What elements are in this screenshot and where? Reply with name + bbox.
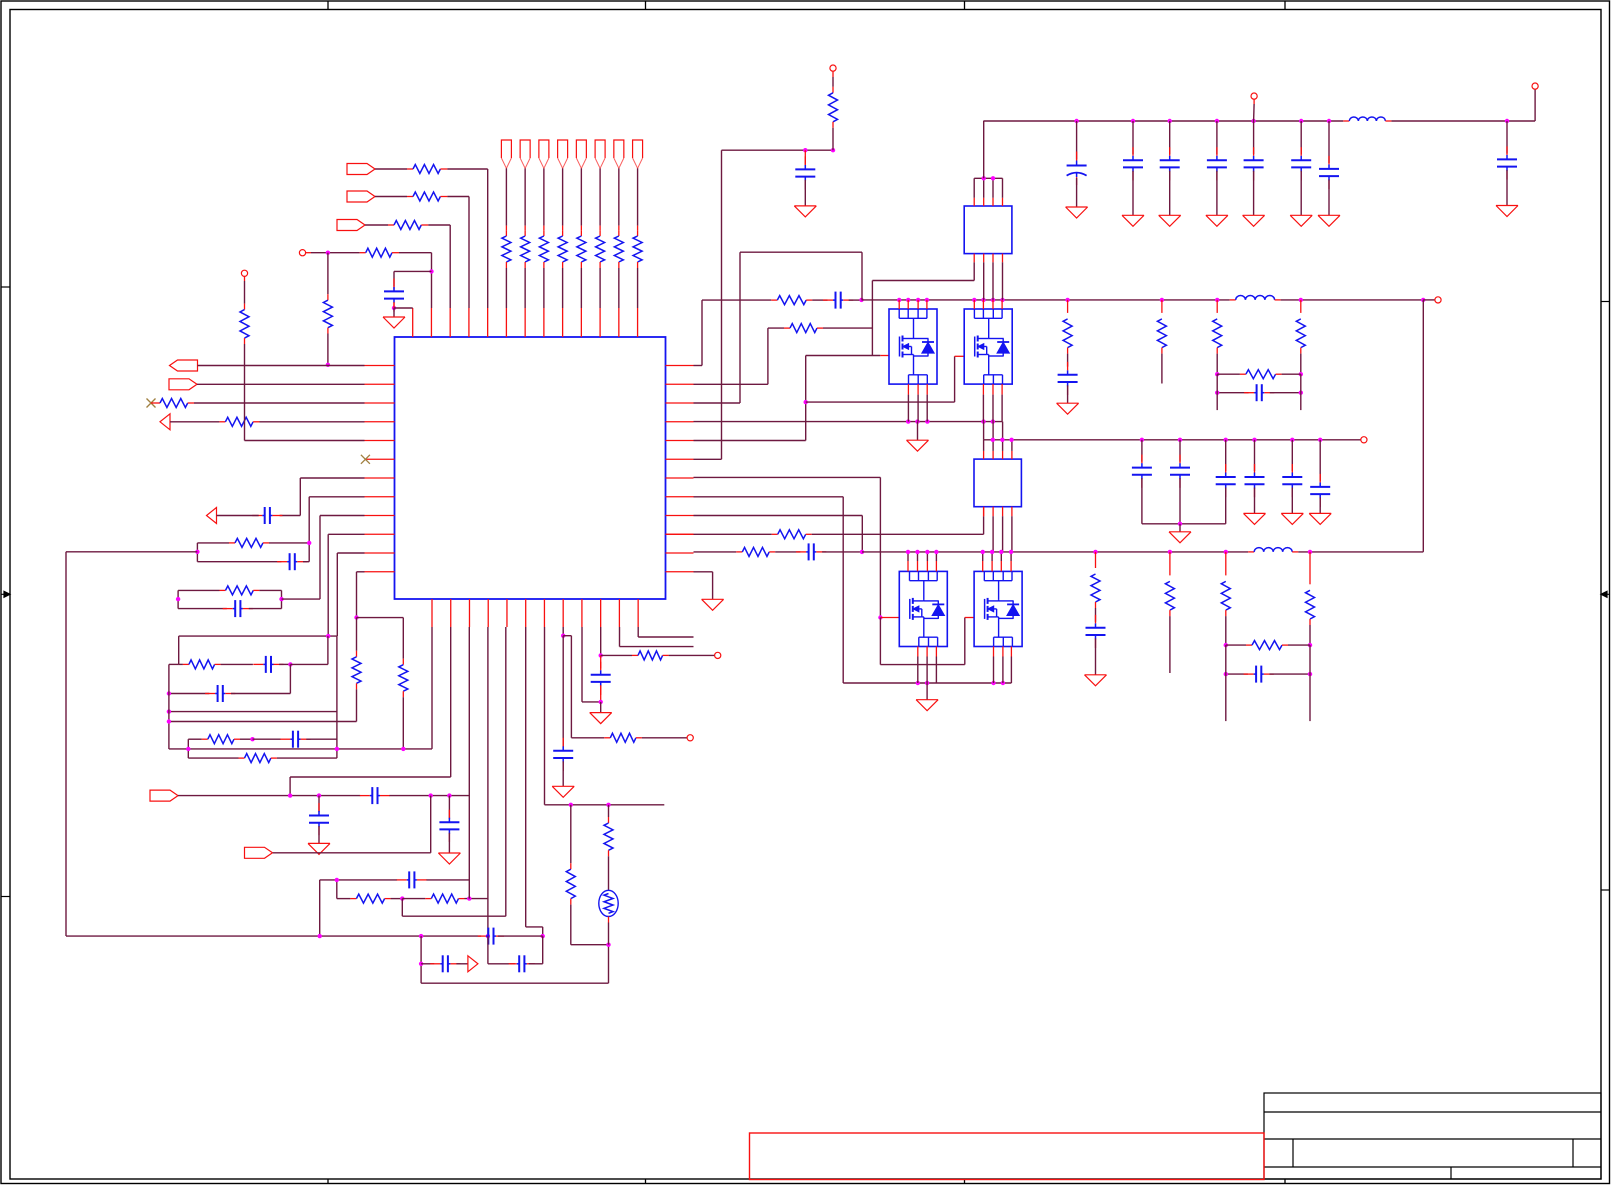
power flag PF6 bbox=[595, 140, 605, 168]
ground G-top bbox=[383, 308, 405, 328]
resistor RG2 to terminal T7 bbox=[601, 651, 721, 660]
wire resistor RT2 to IC bbox=[524, 268, 526, 308]
capacitor CF3 column x=1225.7 bbox=[1216, 440, 1236, 524]
capacitor CF1 column x=1141.9 bbox=[1132, 440, 1152, 524]
port triangle PR1 bbox=[468, 956, 478, 972]
inductor L1 on bus1 bbox=[1343, 117, 1391, 121]
wire resistor RT4 to IC bbox=[562, 268, 564, 308]
IC U1 bottom pin stubs bbox=[432, 599, 638, 627]
wire gate2 feed bbox=[806, 356, 965, 402]
wire to resistor RG1 and terminal bbox=[563, 636, 610, 738]
wire flag 8 to resistor bbox=[637, 168, 639, 230]
wire PB to IC bbox=[197, 383, 365, 385]
wire shared cap bottom y=523.8 bbox=[1142, 522, 1226, 526]
wire row11R bus3 origin with RB4 CB6 bbox=[694, 551, 743, 553]
mosfet Q3 bottom pin wires bbox=[918, 647, 937, 684]
capacitor CA2 bbox=[1123, 121, 1143, 215]
wire cap branch y=879.9 bbox=[320, 871, 470, 936]
power flag PF5 bbox=[576, 140, 586, 168]
ground GA1 bbox=[1066, 207, 1088, 218]
capacitor CA3 bbox=[1160, 121, 1180, 215]
capacitor CA7 bbox=[1319, 121, 1339, 215]
junction row4 bbox=[326, 251, 330, 255]
wire pin10 jog bbox=[582, 627, 601, 702]
RC loop5 stubs bbox=[1226, 645, 1310, 721]
wire junction to capacitor C-top bbox=[394, 271, 432, 289]
terminal T12 bbox=[1361, 437, 1367, 443]
wire resistor RT3 to IC bbox=[543, 268, 545, 308]
ground GT1 bbox=[794, 206, 816, 217]
wire resistor RT8 to IC bbox=[637, 268, 639, 308]
no-connect X1 and resistor RC1 row bbox=[147, 399, 365, 408]
resistor RJ2 bbox=[413, 192, 440, 201]
resistor RJ1 bbox=[413, 165, 440, 174]
IC U1 left pin stubs bbox=[365, 366, 395, 572]
wire node636 horizontal bbox=[179, 634, 337, 638]
RC loop6 capacitor bbox=[1215, 384, 1303, 401]
mosfet Q1 top pin wires bbox=[899, 300, 927, 309]
left column x=168.9 bbox=[169, 664, 179, 749]
wire RD to IC bbox=[253, 421, 364, 423]
inductor L3 on bus3 bbox=[1248, 548, 1298, 552]
ground GA6 bbox=[1290, 215, 1312, 226]
resistor RD1 column x=1095.5 with cap and ground bbox=[1086, 552, 1106, 675]
wire resistor RT1 to IC bbox=[505, 268, 507, 308]
wire resistor RT6 to IC bbox=[599, 268, 601, 308]
RC loop6 stubs bbox=[1217, 374, 1301, 410]
terminal T9 bbox=[1423, 297, 1441, 303]
resistor RJ4 bbox=[366, 248, 392, 257]
port triangle PG bbox=[207, 508, 259, 524]
wire ground net y=936.1 bbox=[66, 934, 545, 938]
wire gate4 feed path bbox=[880, 618, 974, 665]
RC loop3: capacitor bottom branch bbox=[167, 664, 291, 702]
ground GF1 bbox=[1169, 524, 1191, 543]
wire port line y=795.6 with capacitor CB1 bbox=[178, 787, 469, 804]
resistor RT4 bbox=[558, 230, 567, 268]
wire bus3 main bbox=[862, 300, 1423, 554]
resistor RE3 column x=1217.2 bbox=[1213, 300, 1222, 377]
wire rowG to capacitor CG bbox=[280, 478, 365, 516]
RC loop2 sides and junctions bbox=[176, 590, 284, 608]
wire flag 1 to resistor bbox=[505, 168, 507, 230]
wire pin7 net y=804.8 bbox=[545, 627, 665, 807]
resistor RT6 bbox=[596, 230, 605, 268]
wire gate1 feed bbox=[806, 355, 889, 357]
terminal T8 with resistor RT9 bbox=[829, 65, 838, 150]
wire row10R with resistor RB3 to box2 bbox=[666, 533, 778, 535]
power flag PF1 bbox=[501, 140, 511, 168]
polarized capacitor CA1 column bbox=[1067, 121, 1087, 207]
resistor RB4 bbox=[742, 547, 769, 556]
RC loop1 sides bbox=[195, 541, 311, 562]
wire bottom return y=983.2 bbox=[421, 945, 608, 984]
wire pin4 column x=487.9 bbox=[487, 627, 489, 936]
resistor RV3 column x=570.8 bbox=[566, 805, 610, 947]
input port flag J1 bbox=[347, 164, 375, 175]
junction cap bottom bbox=[392, 306, 396, 310]
port flag PB (right arrow) bbox=[169, 379, 197, 390]
resistor RT8 bbox=[633, 230, 642, 268]
transformer box B1 bbox=[964, 206, 1012, 254]
wire cap bottom to IC pin1 bbox=[394, 302, 413, 308]
capacitor CB5 on bus2 bbox=[806, 292, 864, 309]
resistor RD2 column x=1169.9 stub bbox=[1165, 552, 1174, 673]
title block bbox=[1264, 1093, 1601, 1179]
mosfet Q2 bbox=[964, 309, 1012, 384]
resistor RG1 bbox=[610, 733, 636, 742]
wire flag 6 to resistor bbox=[599, 168, 601, 230]
wire resistor RT5 to IC bbox=[580, 268, 582, 308]
power flag PF2 bbox=[520, 140, 530, 168]
wire RE to IC rowE bbox=[245, 440, 365, 442]
resistor RT2 bbox=[521, 230, 530, 268]
capacitor CA5 bbox=[1244, 121, 1264, 215]
main IC U1 bbox=[395, 337, 666, 599]
wire resistor RJ3 to IC top pin bbox=[421, 225, 450, 308]
resistor RD bbox=[225, 417, 253, 426]
filter box B2 bbox=[974, 459, 1021, 507]
RC loop3: resistor+cap series top bbox=[179, 636, 328, 673]
port flag PJ6 and wire y=852.8 bbox=[245, 796, 431, 859]
resistor RE2 column x=1161.9 stub bbox=[1157, 300, 1166, 384]
wire row5R to gate feeds bbox=[694, 356, 808, 441]
resistor RV1 column x=356.5 bbox=[352, 618, 361, 722]
capacitor CP1 on y=936.1 bbox=[478, 928, 543, 945]
RC loop5 capacitor bbox=[1224, 666, 1313, 683]
mosfet Q1 bottom pin wires bbox=[908, 384, 927, 422]
capacitor CG1 bbox=[553, 738, 573, 771]
capacitor CB6 bbox=[769, 543, 864, 560]
mosfet Q3 bbox=[899, 571, 947, 646]
wire pin9 net to cap CG1 bbox=[561, 627, 565, 748]
mosfet Q1 (dual with body diode) bbox=[889, 309, 937, 384]
wire row8R down to mosfet source line bbox=[694, 497, 1012, 685]
wire B1 pin1 to gate column bbox=[872, 262, 974, 355]
wire long left net bbox=[66, 552, 197, 936]
box B1 bottom pins bbox=[974, 254, 1002, 300]
wire port J1 to resistor bbox=[375, 168, 413, 170]
ground GA3 bbox=[1159, 215, 1181, 226]
power flag PF8 bbox=[633, 140, 643, 168]
junction pin2/cap bbox=[429, 269, 433, 273]
wire resistor RT7 to IC bbox=[618, 268, 620, 308]
capacitor CF5 column x=1292.3 with ground bbox=[1281, 440, 1303, 525]
ground GA2 bbox=[1122, 215, 1144, 226]
terminal T11 on bus1 bbox=[1251, 93, 1257, 121]
ground GA4 bbox=[1206, 215, 1228, 226]
capacitor CF6 column x=1320.2 with ground bbox=[1309, 440, 1331, 525]
wire row4R = bus 421.6 bbox=[694, 419, 1003, 423]
mosfet Q2 top pin wires bbox=[974, 300, 1002, 309]
wire resistor RJ2 to IC top pin bbox=[440, 197, 469, 309]
terminal T6 bbox=[636, 735, 693, 741]
wire T4 to R row4 bbox=[306, 252, 366, 254]
wire bottom pin2 net y=777 bbox=[290, 627, 451, 796]
wire RB3 to box2 pin1 bbox=[806, 507, 984, 535]
box B2 bottom pins bbox=[984, 507, 1012, 552]
no-connect X2 bbox=[361, 455, 370, 464]
wire pin6 column jog y=926.9 bbox=[526, 627, 543, 936]
ground G-bus421 bbox=[907, 422, 929, 452]
RC loop1: capacitor C-L1 bbox=[197, 553, 309, 570]
mosfet Q4 top pin wires bbox=[983, 552, 1011, 572]
wire bus1 drop column bbox=[983, 121, 985, 178]
resistor RB1 on bus2 bbox=[777, 296, 806, 305]
wire jog y=916.2 bbox=[402, 627, 506, 916]
input port flag J3 bbox=[337, 220, 365, 231]
capacitor CB4 with port triangle bbox=[421, 955, 468, 972]
wire row9R to bus3 bbox=[694, 516, 863, 552]
ground GA7 bbox=[1318, 215, 1340, 226]
wire PA to IC bbox=[198, 365, 365, 367]
RC loop4 bottom resistor bbox=[188, 754, 337, 763]
ground GG2 bbox=[590, 685, 612, 723]
junction rowA bbox=[326, 363, 330, 367]
wire gate3 feed bbox=[880, 617, 899, 619]
ground GD1 bbox=[1085, 675, 1107, 686]
capacitor CF4 column x=1254.5 with ground bbox=[1244, 440, 1266, 525]
wire row6R up to top node150 bbox=[694, 148, 836, 459]
RC loop4 sides bbox=[188, 636, 337, 758]
wire flag 4 to resistor bbox=[562, 168, 564, 230]
capacitor CG2 bbox=[591, 662, 611, 695]
capacitor C-top bbox=[384, 278, 404, 311]
wire row3R up and over bbox=[694, 252, 863, 403]
power flag PF4 bbox=[558, 140, 568, 168]
wire pin12 stub bbox=[620, 627, 694, 647]
wire flag 5 to resistor bbox=[580, 168, 582, 230]
ground GG1 bbox=[552, 761, 574, 797]
wire flag 3 to resistor bbox=[543, 168, 545, 230]
wire row2R to resistor RB2 bbox=[694, 328, 791, 384]
wire row1R to bus2 start bbox=[694, 300, 778, 365]
RC loop4 top: resistor + capacitor bbox=[188, 731, 337, 748]
capacitor CB2 to ground bbox=[309, 796, 329, 844]
box B1 top pins and bridge bbox=[974, 176, 1002, 206]
capacitor CB3 to ground bbox=[439, 796, 459, 853]
resistor RV4 + thermistor column x=608.5 bbox=[604, 805, 613, 891]
ground GA5 bbox=[1243, 215, 1265, 226]
resistor RE4 column x=1300.8 bbox=[1296, 300, 1305, 377]
wire down to cap-port branch bbox=[419, 936, 423, 983]
capacitor CP2 parallel loop bbox=[488, 936, 543, 972]
RC loop5 resistor bbox=[1226, 641, 1310, 650]
power flag PF7 bbox=[614, 140, 624, 168]
RC loop2: resistor R-L2 bbox=[178, 586, 281, 595]
capacitor CT1 to ground bbox=[795, 150, 815, 206]
wire bus2 main bbox=[862, 298, 1426, 302]
resistor RD4 column x=1310 bbox=[1306, 552, 1315, 647]
wire PD to resistor RD bbox=[170, 421, 225, 423]
wire pin13 stub bbox=[638, 627, 693, 637]
resistor row y=898.6 (R1,R2) bbox=[337, 894, 488, 903]
output port flag PA (left arrow) bbox=[170, 360, 198, 371]
resistor RT1 bbox=[502, 230, 511, 268]
wire row 571.8 to dual resistor columns bbox=[354, 572, 364, 620]
wire node line y=721.5 bbox=[167, 719, 357, 723]
wire resistor RJ1 to IC top pin bbox=[440, 169, 487, 308]
terminal T5 (open circle) with resistor RE column bbox=[240, 270, 249, 440]
resistor RB2 bbox=[790, 324, 817, 333]
wire mid node line y=711.6 bbox=[167, 709, 337, 713]
resistor R-row4-pullup (vertical at x=327.9) bbox=[323, 253, 332, 365]
terminal T10 bbox=[1532, 83, 1538, 89]
resistor RJ3 bbox=[394, 221, 421, 230]
wire bus440 main bbox=[984, 438, 1361, 442]
wire row 553 down bbox=[337, 553, 364, 636]
wire row 534.3 down to node636 bbox=[328, 534, 364, 636]
ground GA8 bbox=[1496, 206, 1518, 217]
thermistor RT1 (ellipse) bbox=[599, 890, 618, 944]
resistor RD3 column x=1225.8 bbox=[1221, 552, 1230, 647]
capacitor CA8 column x=1507 bbox=[1497, 121, 1517, 206]
wire port J2 to resistor bbox=[375, 196, 413, 198]
wire bus1 main bbox=[983, 89, 1535, 123]
wire loop2 to IC row 515.5 bbox=[282, 516, 365, 600]
resistor RV2 column x=403.3 bbox=[357, 618, 408, 749]
mosfet Q3 top pin wires bbox=[908, 552, 936, 572]
resistor RB3 bbox=[778, 530, 806, 539]
wire RJ4 to IC pin2 column bbox=[392, 253, 432, 308]
wire RB2 to gate column bbox=[817, 327, 872, 329]
resistor RT3 bbox=[539, 230, 548, 268]
wire pin3 column x=469.3 bbox=[468, 627, 470, 899]
port flag PJ5 bottom-left bbox=[150, 790, 178, 801]
input port flag J2 bbox=[347, 191, 375, 202]
wire flag 7 to resistor bbox=[618, 168, 620, 230]
resistor RE1 column x=1067.6 with cap CE1 and ground bbox=[1058, 300, 1078, 403]
ground GB3 bbox=[438, 853, 460, 864]
capacitor CA4 bbox=[1207, 121, 1227, 215]
capacitor CA6 bbox=[1291, 121, 1311, 215]
terminal T4 (open circle) bbox=[299, 250, 305, 256]
inductor L2 on bus2 bbox=[1230, 296, 1281, 300]
mosfet Q2 bottom pin wires bbox=[983, 384, 1002, 422]
port triangle PD bbox=[160, 414, 170, 430]
RC loop1: resistor R-L1 bbox=[197, 538, 309, 547]
resistor RT5 bbox=[577, 230, 586, 268]
wire port J3 to resistor bbox=[365, 224, 394, 226]
wire pin11 column with cap CG2 bbox=[599, 627, 603, 668]
ground G-row12 bbox=[702, 599, 724, 610]
mosfet Q4 bbox=[974, 571, 1022, 646]
wire mid line y=748.9 to IC bottom pin1 bbox=[169, 627, 432, 751]
capacitor CG bbox=[252, 507, 282, 524]
ground GE1 bbox=[1057, 403, 1079, 414]
ground GB2 bbox=[308, 843, 330, 854]
wire row7R down to lower gates bbox=[694, 477, 883, 619]
box B2 top pins bbox=[984, 422, 1012, 460]
wire row12R to ground bbox=[694, 572, 713, 600]
revision note box (red) bbox=[750, 1133, 1265, 1180]
IC U1 top pin stubs bbox=[413, 308, 638, 337]
mosfet Q4 bottom pin wires bbox=[994, 647, 1012, 684]
capacitor CF2 column x=1180 bbox=[1170, 440, 1190, 524]
RC loop6 resistor bbox=[1217, 370, 1301, 379]
resistor RT7 bbox=[614, 230, 623, 268]
wire rowH down to RC loop1 bbox=[309, 497, 364, 543]
RC loop2: capacitor C-L2 bbox=[178, 600, 281, 617]
power flag PF3 bbox=[539, 140, 549, 168]
wire flag 2 to resistor bbox=[524, 168, 526, 230]
ground G-sources bbox=[916, 683, 938, 711]
IC U1 right pin stubs bbox=[666, 366, 694, 572]
